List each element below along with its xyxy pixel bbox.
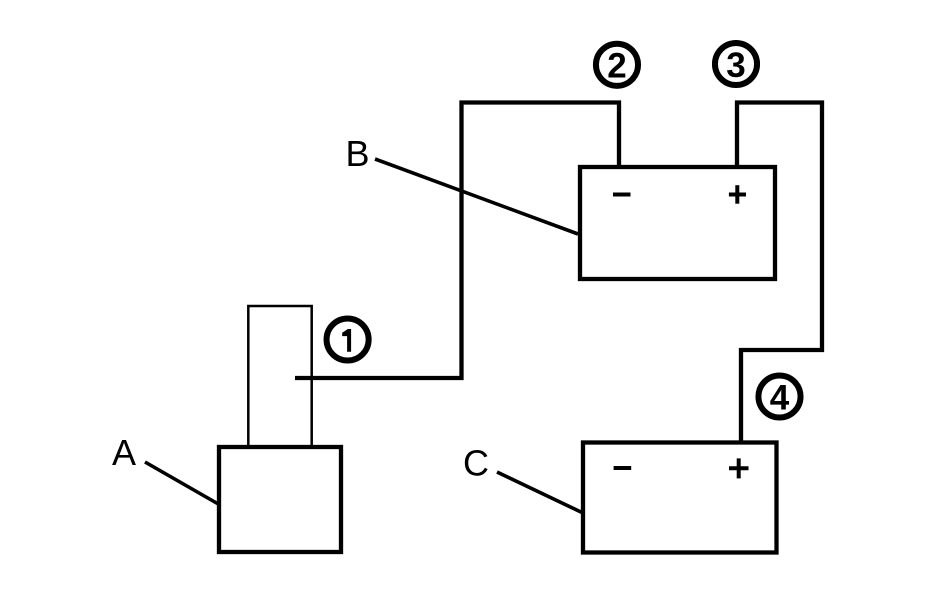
svg-text:B: B [345,133,369,174]
svg-text:2: 2 [607,47,626,86]
leader line B [375,159,578,234]
leader line A [145,462,220,505]
battery C minus terminal label [614,466,632,470]
wire cable 1 (from A terminal to battery B negative) [295,103,619,379]
battery B minus terminal label [613,193,631,197]
component A box (remote jump start terminal body) [219,447,341,552]
callout circle 3 [715,43,757,85]
component A stem (thin upper rectangle) [248,306,311,446]
svg-text:A: A [112,432,136,473]
battery C plus terminal label [729,458,749,478]
wire cable 2 (from battery B positive to battery C positive) [737,103,822,442]
callout circle 4 [758,375,800,417]
battery B plus terminal label [729,185,746,204]
leader line C [497,472,583,513]
battery C box [583,443,777,553]
svg-text:4: 4 [770,378,790,417]
callout circle 1 [327,318,369,360]
battery B box [580,167,775,279]
svg-text:3: 3 [726,46,745,85]
svg-text:C: C [463,443,489,484]
callout circle 2 [596,44,638,86]
